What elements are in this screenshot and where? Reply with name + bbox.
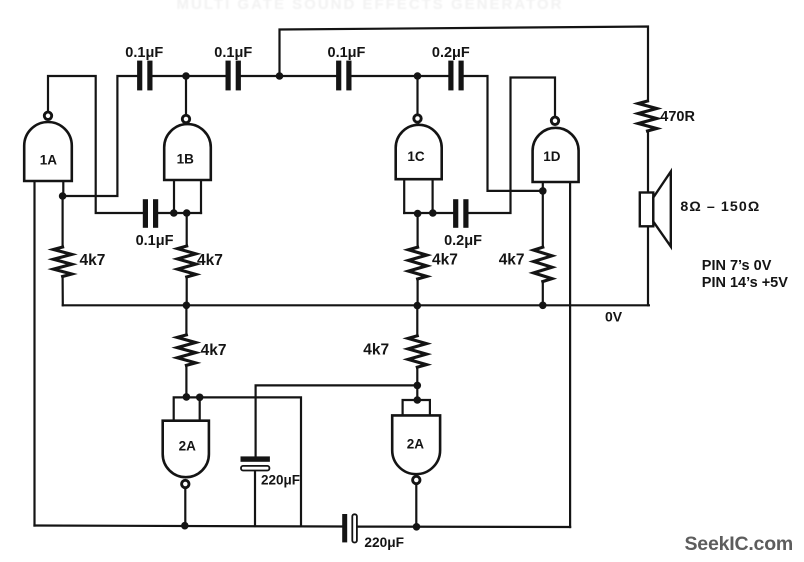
svg-text:2A: 2A	[407, 437, 425, 452]
svg-text:0.1μF: 0.1μF	[136, 233, 174, 249]
svg-text:4k7: 4k7	[499, 252, 525, 269]
svg-text:1A: 1A	[40, 153, 58, 168]
svg-text:PIN 7’s 0V: PIN 7’s 0V	[702, 258, 772, 274]
svg-text:1D: 1D	[543, 149, 561, 164]
svg-text:220μF: 220μF	[364, 535, 404, 550]
svg-text:1B: 1B	[177, 151, 195, 166]
svg-text:4k7: 4k7	[363, 342, 389, 359]
svg-text:0.1μF: 0.1μF	[328, 45, 366, 61]
svg-text:1C: 1C	[407, 149, 425, 164]
svg-text:2A: 2A	[179, 438, 197, 453]
svg-text:4k7: 4k7	[80, 252, 106, 269]
svg-text:4k7: 4k7	[432, 252, 458, 269]
svg-text:SeekIC.com: SeekIC.com	[685, 533, 794, 555]
svg-text:MULTI GATE SOUND EFFECTS GENER: MULTI GATE SOUND EFFECTS GENERATOR	[177, 0, 564, 13]
svg-text:470R: 470R	[660, 109, 695, 125]
svg-text:0V: 0V	[605, 309, 623, 325]
svg-text:0.1μF: 0.1μF	[214, 45, 252, 61]
svg-text:4k7: 4k7	[197, 252, 223, 269]
svg-text:0.2μF: 0.2μF	[432, 45, 470, 61]
svg-text:8Ω – 150Ω: 8Ω – 150Ω	[680, 199, 760, 215]
svg-text:0.2μF: 0.2μF	[444, 233, 482, 249]
svg-text:PIN 14’s +5V: PIN 14’s +5V	[702, 275, 788, 291]
svg-text:0.1μF: 0.1μF	[125, 45, 163, 61]
svg-text:4k7: 4k7	[201, 342, 227, 359]
svg-text:220μF: 220μF	[261, 473, 300, 488]
